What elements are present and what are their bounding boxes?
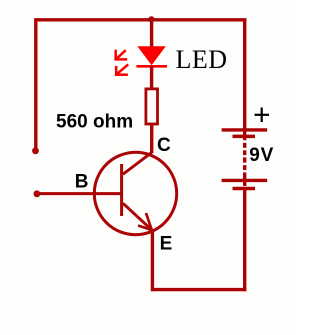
battery cell 1 short plate	[233, 135, 256, 139]
battery cell 2 short plate	[233, 187, 256, 191]
battery cell 2 long plate	[222, 179, 268, 182]
battery dashed link (more cells)	[243, 143, 246, 170]
LED light arrow 2	[115, 64, 128, 76]
svg-text:C: C	[157, 135, 171, 156]
LED triangle (anode)	[137, 46, 165, 65]
svg-text:B: B	[75, 171, 89, 192]
transistor collector diagonal	[123, 152, 152, 174]
svg-text:560 ohm: 560 ohm	[56, 112, 133, 133]
wire bottom rail	[151, 288, 246, 291]
junction top node	[148, 16, 154, 22]
LED cathode bar	[136, 65, 167, 68]
transistor emitter diagonal	[123, 203, 152, 230]
wire left vertical (positive supply to base contact)	[34, 19, 37, 149]
wire LED cathode to resistor	[150, 66, 153, 89]
wire emitter down	[151, 229, 154, 291]
svg-text:9V: 9V	[249, 145, 274, 166]
transistor emitter arrowhead	[138, 213, 152, 230]
transistor body circle	[94, 152, 176, 234]
wire battery mid stub	[243, 172, 246, 186]
wire right vertical lower (battery - to bottom rail)	[243, 188, 246, 291]
transistor base bar	[120, 164, 123, 216]
wire base lead	[38, 192, 122, 195]
svg-text:LED: LED	[176, 45, 228, 74]
resistor 560 ohm body	[146, 89, 158, 124]
wire LED anode	[150, 20, 153, 48]
battery cell 1 long plate	[222, 128, 268, 131]
wire top rail	[34, 18, 246, 21]
LED light arrow 1	[114, 50, 127, 61]
wire resistor to collector	[150, 124, 153, 154]
svg-text:E: E	[160, 234, 173, 255]
wire right vertical upper (top rail to battery +)	[243, 19, 246, 141]
battery plus sign	[255, 108, 269, 123]
node open contact upper dot	[32, 147, 39, 154]
node open contact lower dot	[34, 190, 41, 197]
